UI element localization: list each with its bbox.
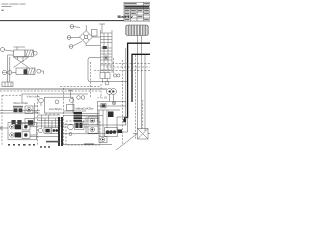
- aux box B4: [117, 117, 128, 132]
- solenoid valve V1: [14, 47, 38, 57]
- sensor S2: [55, 100, 59, 104]
- tank T-symbol: [99, 24, 105, 33]
- junction box JB1: [2, 82, 13, 87]
- crossed box XV1: [133, 129, 150, 140]
- wire: lower link: [30, 136, 58, 138]
- bottom tiny text: [8, 141, 94, 148]
- svg-text:Vihel ruhler: Vihel ruhler: [13, 101, 28, 105]
- sensor S1: [39, 98, 44, 103]
- indicator lamp: [112, 101, 115, 104]
- contactor K3: [44, 128, 51, 134]
- wire: long horizontal supply line: [0, 20, 150, 22]
- breaker Q4: [22, 132, 30, 139]
- wire: bus lines left: [0, 111, 40, 114]
- wire: mesh verticals: [42, 115, 56, 128]
- enclosure left rows: [8, 123, 37, 140]
- terminal strip X1: [67, 96, 95, 111]
- controller box B2: [44, 97, 73, 113]
- wire: filter top stub: [85, 25, 87, 30]
- svg-text:Blatt 1 v: Blatt 1 v: [118, 14, 134, 19]
- note text top-left: [2, 4, 26, 11]
- wire: row verticals: [86, 110, 107, 136]
- wire: filter right to manifold: [93, 36, 101, 38]
- junction blob dark: [123, 119, 126, 122]
- enclosure dashed big: [2, 55, 136, 145]
- gauge G3: [69, 45, 73, 49]
- wire: left feed: [0, 127, 37, 135]
- connector stub left: [1, 48, 5, 52]
- wire: row connections: [63, 111, 112, 134]
- wire: crossover X: [14, 57, 29, 68]
- wire: box B1 right edge: [125, 48, 127, 125]
- gauge G4 pair: [113, 74, 116, 77]
- svg-text:Vihel ruhler: Vihel ruhler: [27, 95, 41, 99]
- contactor K4: [51, 128, 58, 134]
- gauge G2: [67, 36, 71, 40]
- wire: bottom bus: [63, 144, 112, 146]
- breaker Q2: [22, 124, 30, 131]
- motor M3: [88, 117, 98, 125]
- wire: pipe right: [144, 55, 146, 131]
- svg-text:wBnaCzKZlw: wBnaCzKZlw: [76, 106, 95, 110]
- check valve CV1: [104, 56, 109, 61]
- svg-text:elva Blight: elva Blight: [49, 107, 62, 111]
- wire: dashed horizontals right: [101, 63, 150, 65]
- wire: dashed vertical right short: [142, 100, 144, 128]
- wire: bus line y89: [0, 88, 107, 90]
- wire: filter bottom drop: [86, 44, 101, 46]
- valve body box: [92, 30, 98, 37]
- meter M1: [25, 106, 33, 114]
- wire: G1 line: [74, 26, 80, 29]
- wire: internal lines B3: [98, 106, 126, 110]
- probe T mark: [69, 91, 73, 98]
- wire: dash-dot vertical x90.5: [90, 62, 92, 97]
- wire: section line y94: [22, 94, 89, 103]
- busbar dark pair: [59, 117, 62, 146]
- wire: valve V2 drops: [8, 55, 44, 82]
- wire: pump stubs: [110, 95, 114, 102]
- svg-text:n.Pu 1M: n.Pu 1M: [98, 96, 108, 100]
- wire: cooler legs down: [136, 36, 138, 130]
- tank T2 dark box inner: [132, 54, 150, 102]
- strip header circles: [77, 96, 81, 100]
- motor starter M2: [68, 124, 74, 130]
- tank T1 dark box outer: [125, 43, 150, 121]
- pilot light H1: [69, 133, 72, 136]
- switch box SW dark dots: [105, 128, 118, 137]
- junction block dark: [103, 46, 107, 49]
- wire: dashed line y86: [60, 86, 100, 88]
- relay K2 dark stack: [74, 112, 83, 122]
- relay K5 dark: [108, 112, 114, 118]
- gauge G5: [105, 81, 109, 85]
- wire: lines from relay right: [82, 114, 99, 119]
- left small cluster marks: [13, 106, 23, 112]
- wire: leader diagonal: [116, 134, 138, 151]
- ladder small: [34, 103, 38, 125]
- gauge G1: [70, 25, 74, 29]
- wire: G3 stub to filter: [73, 41, 82, 46]
- filter F1 diamond: [80, 31, 93, 44]
- motor M4: [88, 126, 98, 133]
- cooler K1 striped block: [126, 25, 149, 36]
- title block table: [124, 2, 150, 21]
- fuse F2 dark block: [101, 104, 106, 108]
- solenoid valve V2: [16, 68, 41, 75]
- manifold ladder: [100, 30, 112, 83]
- sensor S3: [70, 98, 74, 102]
- wire: mesh rows: [38, 115, 63, 126]
- distribution box B3: [98, 101, 126, 125]
- control box B1: [88, 58, 127, 82]
- valve V3: [38, 128, 42, 132]
- connector plug P1: [2, 70, 6, 74]
- breaker Q3: [10, 133, 14, 137]
- wire: dashed stub x101: [100, 84, 102, 96]
- row2 left components: [12, 120, 22, 124]
- wire: dashed line y91: [0, 90, 100, 92]
- motor M5: [99, 137, 107, 143]
- breaker Q1: [10, 125, 14, 129]
- wire: dash-dot vertical x113.5: [113, 58, 115, 74]
- enclosure dashed right rows: [66, 121, 100, 145]
- pump P2 circles: [107, 89, 113, 95]
- wire: G2 stub to filter: [71, 36, 80, 38]
